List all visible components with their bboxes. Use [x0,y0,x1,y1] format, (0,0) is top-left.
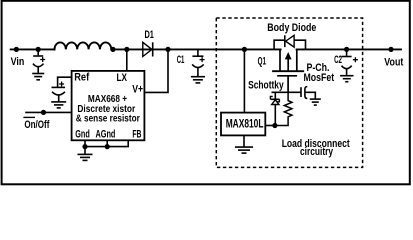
svg-text:Vout: Vout [384,56,403,68]
node AGnd junction [105,144,110,149]
inductor L1 [55,42,112,49]
svg-text:MosFet: MosFet [304,72,335,84]
wire LX pin [126,49,128,71]
node C2 junction [344,47,349,52]
svg-text:Schottky: Schottky [248,80,284,92]
svg-text:Gnd: Gnd [75,129,90,141]
svg-text:circuitry: circuitry [300,146,334,158]
svg-text:LX: LX [117,72,128,84]
svg-text:Ref: Ref [74,72,89,84]
ground input cap [32,74,44,80]
wire Gnd pin [84,140,86,146]
overline On/Off [23,116,35,118]
node V+ branch junction [165,47,170,52]
ground ref cap [51,102,66,108]
node MAX810L Vcc junction [242,47,247,52]
svg-text:V+: V+ [132,84,143,96]
wire FB pin [85,140,128,146]
diode body diode of Q1 [285,35,294,47]
wire body diode bracket [274,40,305,49]
svg-text:C1: C1 [177,54,185,66]
node Gnd junction [82,144,87,149]
capacitor C2 [342,49,352,75]
plus sign C2 [353,57,358,62]
plus sign C1 [200,57,205,62]
capacitor input bypass [33,49,44,72]
svg-text:AGnd: AGnd [96,129,116,141]
node Vout terminal [388,47,393,52]
capacitor gate to ground [301,87,315,99]
dashed box load disconnect [216,18,362,167]
node LX junction [124,47,129,52]
svg-text:C2: C2 [334,54,342,66]
ground MAX810L [235,147,253,153]
wire Ref pin to ref cap [58,77,72,87]
capacitor ref bypass [52,87,66,101]
wire main rail right [297,48,401,50]
ground C2 [340,76,353,82]
plus sign ref cap [59,82,64,87]
wire V+ branch [144,49,168,92]
IC U2 MAX810L reset box [221,113,265,136]
node gate drive junction [272,123,277,128]
svg-text:D1: D1 [145,29,154,41]
wire AGnd pin [106,140,108,146]
svg-text:& sense resistor: & sense resistor [76,113,140,125]
svg-text:On/Off: On/Off [24,119,49,131]
diode D1 [143,42,153,56]
wire MAX810L Vcc [243,49,245,112]
arrow bulk of Q1 [285,52,292,59]
diode Schottky clamp [270,92,279,125]
wire On/Off input [25,111,71,113]
svg-text:FB: FB [132,129,141,141]
svg-text:MAX810L: MAX810L [226,119,264,131]
plus sign Cin [40,57,45,62]
IC U1 MAX668 boost controller box [72,71,145,140]
resistor gate pull [275,92,292,125]
capacitor C1 [192,49,204,76]
ground gate cap [310,99,321,105]
svg-text:Vin: Vin [11,56,25,68]
wire MAX810L output pin [265,125,275,127]
ground C1 [191,77,205,83]
wire gate rail [272,91,301,93]
wire MAX810L ground pin [243,135,245,146]
wire main rail middle [111,48,280,50]
svg-text:Q1: Q1 [258,55,266,67]
transistor Q1 P-channel MOSFET [272,49,304,92]
node On/Off [41,110,46,115]
node input cap junction [36,47,41,52]
wire main rail left [11,48,55,50]
svg-text:Body Diode: Body Diode [267,22,316,34]
ground MAX668 [78,147,93,161]
node Vin terminal [14,47,19,52]
node inductor-diode junction [110,47,115,52]
